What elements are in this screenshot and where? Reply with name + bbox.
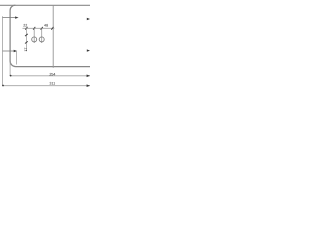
svg-text:254: 254 [49, 73, 55, 77]
hole 2 centerline [41, 28, 43, 43]
panel right edge [52, 5, 54, 68]
vertical edge line below arrow B [15, 51, 17, 64]
extension line panel-left down to 254 dim [9, 62, 11, 76]
svg-text:311: 311 [49, 82, 55, 86]
dimension line 22/48 [23, 27, 55, 29]
tick 4 [51, 27, 53, 30]
leader arrow A (top) [3, 17, 16, 19]
arrow 254 right [87, 75, 90, 78]
svg-text:22: 22 [23, 24, 27, 28]
right edge mark middle [87, 49, 90, 51]
vertical dim line x=26.4 [25, 28, 27, 51]
tick v1 [25, 34, 28, 36]
dim line 254 [10, 75, 90, 77]
leader arrow B (middle) [3, 50, 15, 52]
dot 311 left [2, 85, 4, 87]
svg-text:48: 48 [44, 24, 48, 28]
tick 3 [41, 27, 43, 30]
panel outline with rounded left corners [10, 5, 90, 66]
hole 1 [32, 37, 37, 42]
dot 254 left [10, 75, 12, 77]
tick v2 [25, 41, 28, 43]
extension line left (x=2.5) [2, 16, 4, 85]
hole 1 centerline [33, 28, 35, 43]
tick 2 [33, 27, 35, 30]
hole 2 [39, 37, 44, 42]
arrow 311 right [87, 84, 90, 87]
right edge mark top [87, 18, 90, 20]
dim line 311 [3, 85, 91, 87]
svg-text:17: 17 [24, 48, 28, 52]
tick 1 [25, 27, 27, 30]
top rail edge line (full width) [0, 4, 90, 6]
